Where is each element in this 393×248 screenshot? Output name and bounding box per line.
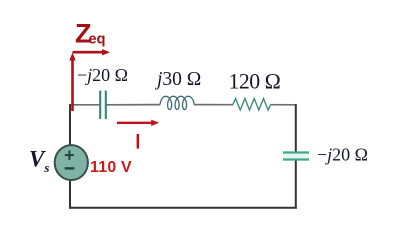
svg-text:−j20 Ω: −j20 Ω — [317, 145, 368, 165]
resistor R1 zigzag — [233, 99, 271, 111]
source Vs circle — [55, 145, 88, 180]
wire: C1 to L1 — [107, 104, 161, 106]
svg-text:120 Ω: 120 Ω — [229, 70, 281, 94]
wire: left side, corner down to source — [69, 104, 71, 147]
wire: R1 to top-right corner — [270, 104, 297, 106]
svg-text:Vs: Vs — [29, 147, 49, 176]
svg-text:110 V: 110 V — [90, 159, 132, 176]
current arrow I — [117, 120, 159, 126]
wire: L1 to R1 — [194, 104, 233, 106]
wire: right side, corner down to C2 top plate — [295, 104, 297, 152]
source plus sign — [65, 150, 74, 160]
wire: bottom — [69, 207, 297, 209]
svg-text:−j20 Ω: −j20 Ω — [77, 65, 128, 85]
wire: source to bottom-left corner — [69, 179, 71, 209]
Zeq arrow — [69, 49, 110, 111]
source minus sign — [65, 167, 75, 169]
svg-text:Zeq: Zeq — [75, 18, 105, 48]
svg-text:j30 Ω: j30 Ω — [154, 69, 201, 90]
wire: C2 bottom plate down to bottom-right corner — [295, 160, 297, 209]
capacitor C1 plates — [100, 91, 106, 120]
wire: top-left segment (corner to C1) — [69, 104, 100, 106]
capacitor C2 plates — [283, 153, 309, 160]
label I — [137, 134, 140, 149]
inductor L1 coil — [160, 96, 194, 109]
